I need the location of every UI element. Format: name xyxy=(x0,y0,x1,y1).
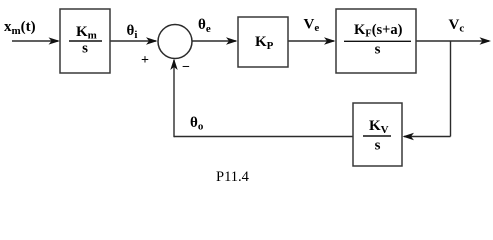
svg-text:Ve: Ve xyxy=(304,17,320,35)
svg-text:KF(s+a): KF(s+a) xyxy=(354,22,403,40)
svg-text:Vc: Vc xyxy=(449,17,465,35)
svg-text:θe: θe xyxy=(198,17,211,35)
svg-text:+: + xyxy=(141,53,149,68)
svg-text:P11.4: P11.4 xyxy=(216,169,250,185)
svg-text:KV: KV xyxy=(369,118,389,136)
svg-text:KP: KP xyxy=(255,34,274,52)
svg-text:s: s xyxy=(82,41,88,57)
svg-text:s: s xyxy=(375,42,381,58)
svg-text:θo: θo xyxy=(190,115,204,133)
svg-text:s: s xyxy=(375,138,381,154)
svg-text:xm(t): xm(t) xyxy=(4,19,36,37)
svg-text:Km: Km xyxy=(76,24,97,42)
svg-text:−: − xyxy=(182,60,190,75)
svg-text:θi: θi xyxy=(127,23,138,41)
